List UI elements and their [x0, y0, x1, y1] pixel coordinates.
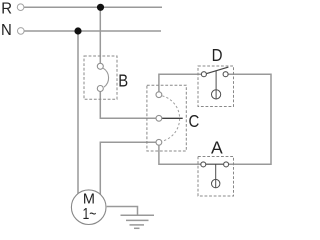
svg-text:B: B	[118, 71, 128, 91]
svg-text:A: A	[211, 138, 223, 158]
svg-text:M: M	[83, 191, 95, 207]
svg-text:N: N	[1, 22, 12, 39]
svg-text:C: C	[189, 111, 200, 131]
svg-text:R: R	[1, 1, 12, 18]
svg-text:D: D	[212, 45, 223, 65]
svg-text:1~: 1~	[82, 206, 96, 223]
